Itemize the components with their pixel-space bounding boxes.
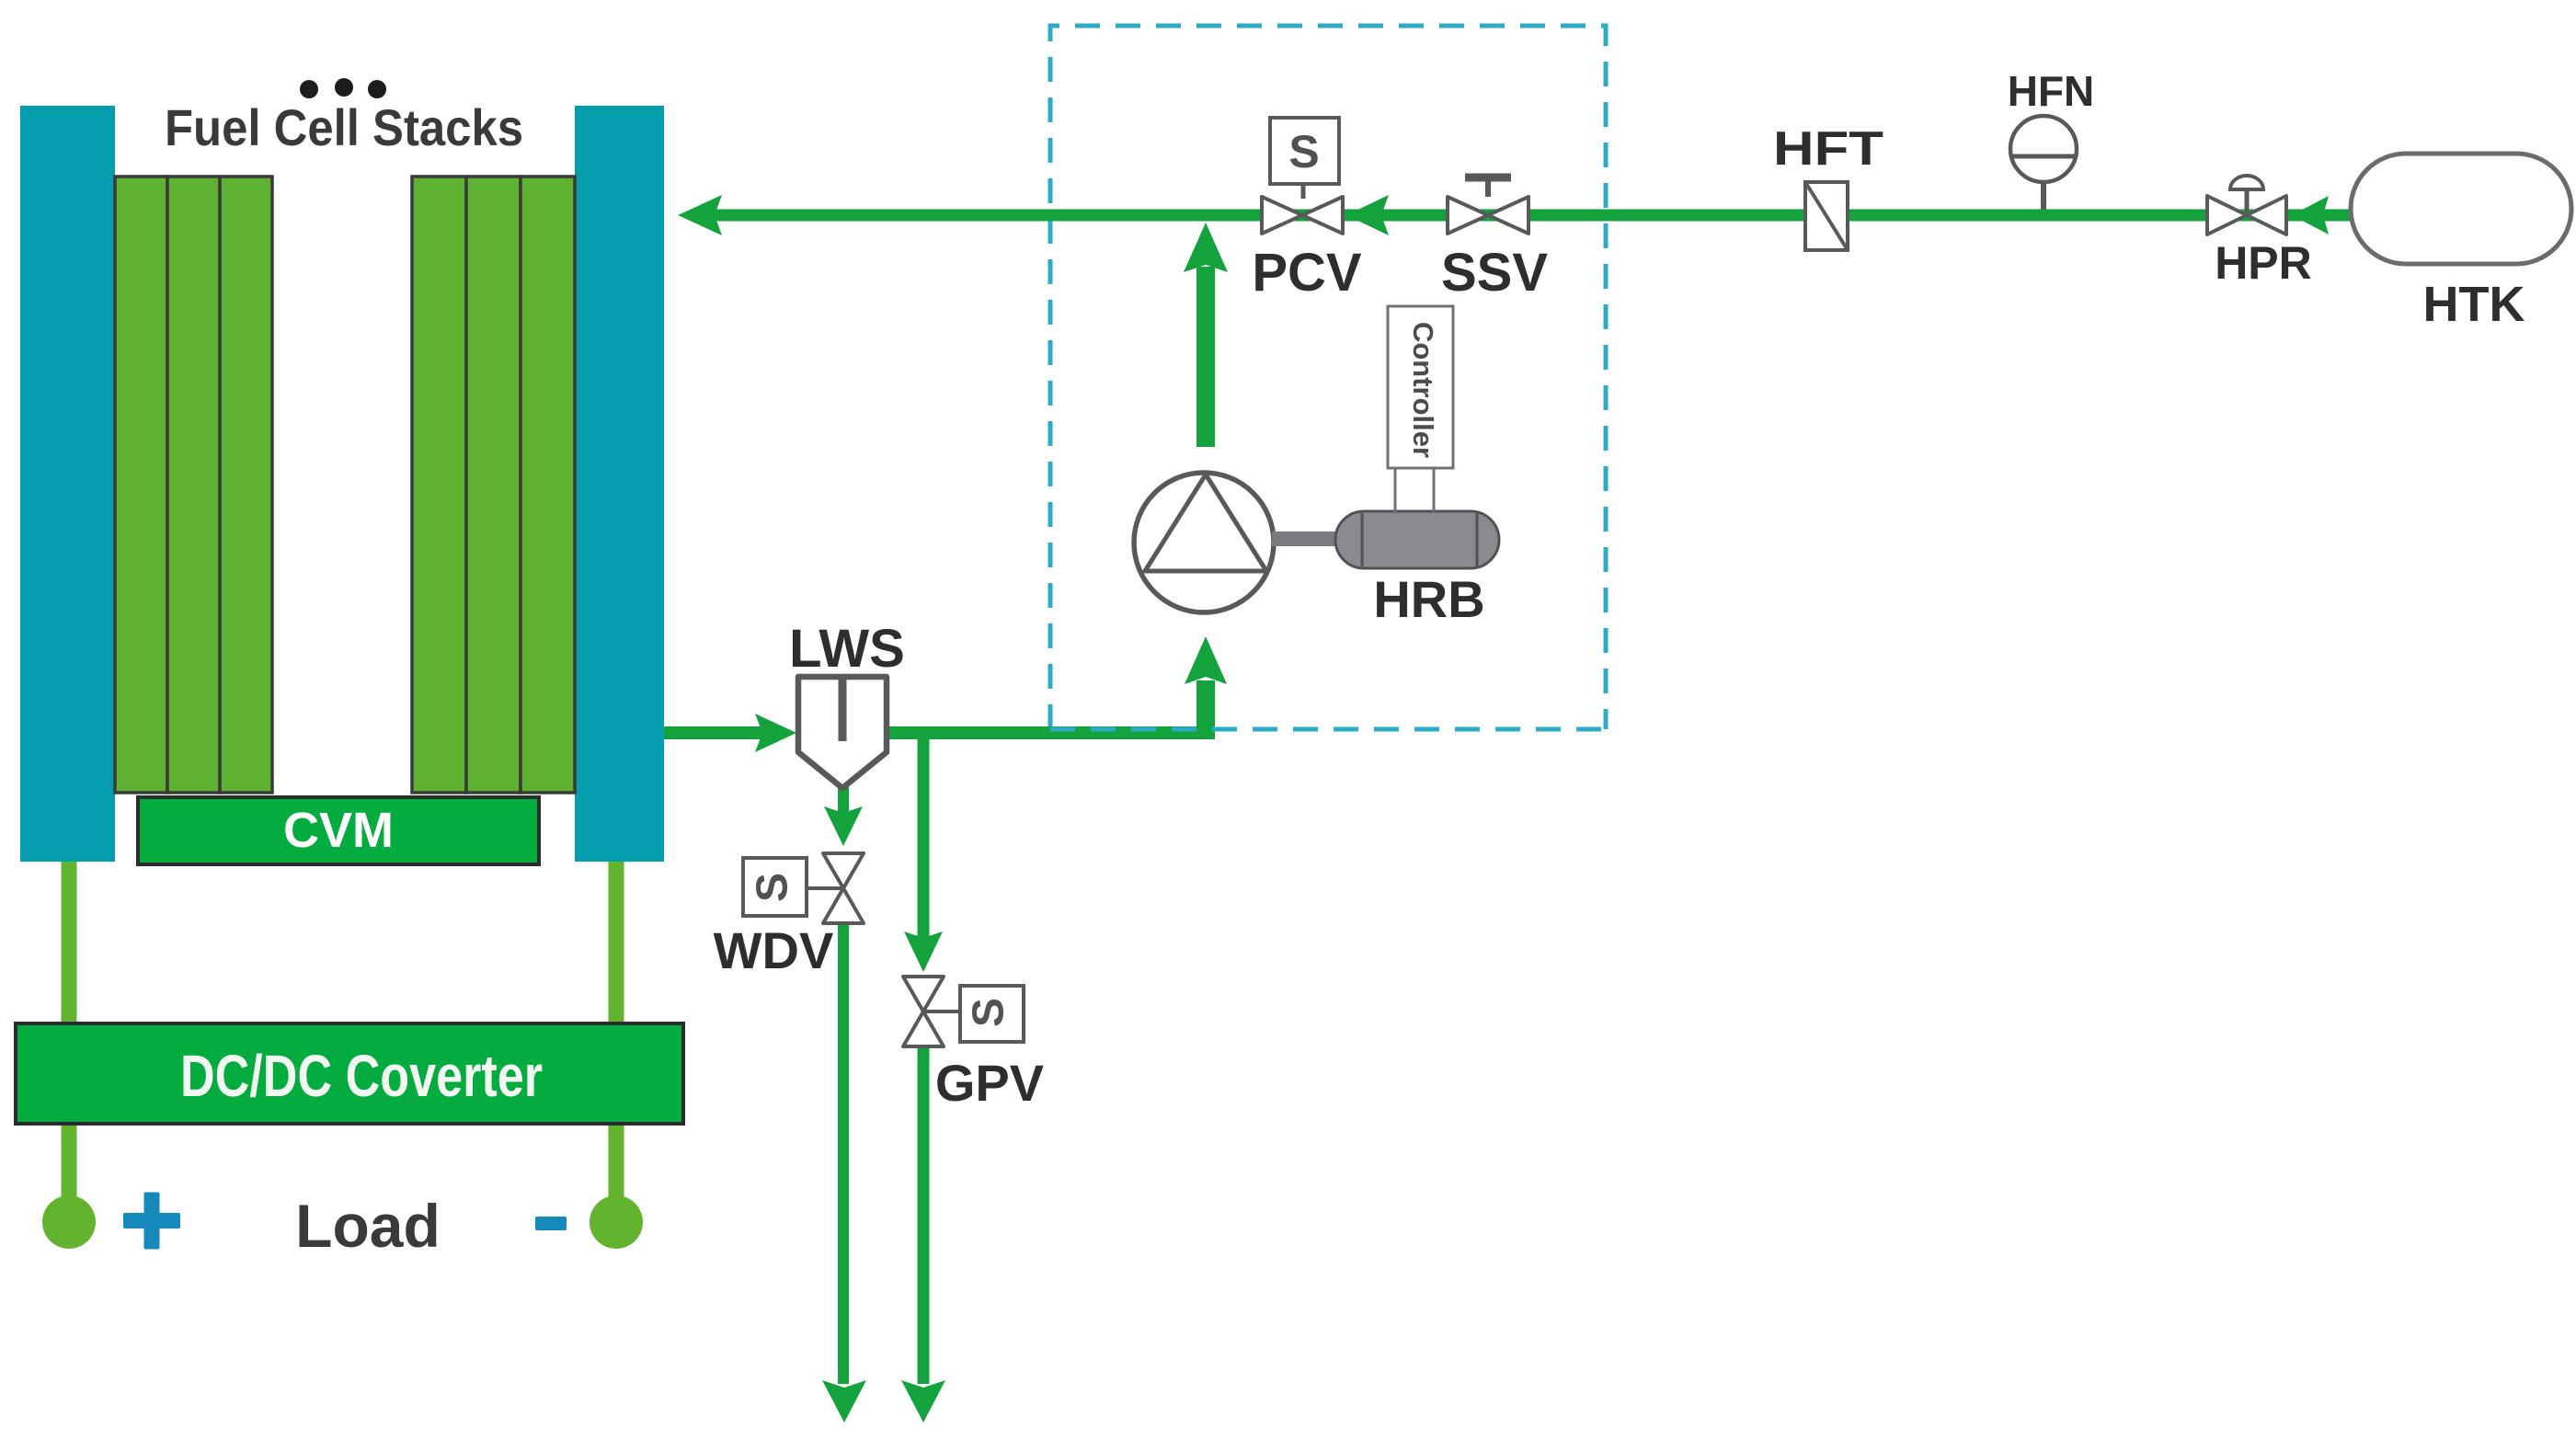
terminal wire: negative electrode bbox=[609, 856, 624, 1023]
terminal wire: positive electrode bbox=[62, 856, 77, 1023]
dashed box bottom edge (over recirculation pipe) bbox=[1050, 727, 1606, 732]
valve WDV bbox=[823, 853, 864, 923]
svg-text:HPR: HPR bbox=[2215, 237, 2312, 289]
valve SSV bbox=[1448, 197, 1528, 234]
minus terminal symbol bbox=[535, 1217, 567, 1230]
node: positive terminal bbox=[42, 1195, 96, 1249]
valve PCV solenoid box bbox=[1270, 118, 1339, 184]
separator LWS vessel bbox=[798, 677, 887, 788]
arrow into fuel cell stacks bbox=[678, 195, 722, 235]
fuel cell stack cells right group bbox=[412, 177, 575, 793]
tank HTK bbox=[2351, 154, 2571, 264]
wire: main hydrogen supply pipe bbox=[708, 210, 2351, 222]
wire: stack outlet into LWS bbox=[664, 726, 763, 739]
DC/DC converter box bbox=[16, 1023, 683, 1124]
svg-text:Fuel Cell Stacks: Fuel Cell Stacks bbox=[165, 98, 523, 156]
svg-text:HTK: HTK bbox=[2423, 277, 2525, 332]
valve WDV solenoid box bbox=[807, 886, 843, 890]
node: negative terminal bbox=[590, 1195, 643, 1249]
svg-text:GPV: GPV bbox=[935, 1054, 1044, 1112]
arrow above WDV bbox=[824, 806, 863, 846]
arrow bottom right purge outlet bbox=[901, 1380, 945, 1423]
wire: WDV outlet down bbox=[838, 920, 849, 1384]
wire: branch down to GPV bbox=[918, 726, 930, 938]
svg-text:HRB: HRB bbox=[1373, 570, 1484, 628]
valve SSV handle bbox=[1485, 180, 1491, 197]
arrow into pump from below bbox=[1185, 636, 1227, 684]
arrow pump outlet to main pipe bbox=[1184, 223, 1228, 272]
svg-text:Load: Load bbox=[295, 1192, 441, 1260]
svg-text:WDV: WDV bbox=[714, 921, 834, 979]
fuel cell stack end plate left bbox=[20, 106, 115, 862]
fuel cell stack cells left group bbox=[115, 177, 272, 793]
HRB controller neck bbox=[1394, 468, 1397, 512]
ellipsis dots above stacks bbox=[300, 80, 318, 98]
plus terminal symbol bbox=[123, 1213, 180, 1229]
gauge HFN bbox=[2010, 116, 2077, 182]
svg-text:CVM: CVM bbox=[283, 803, 394, 858]
arrow above GPV bbox=[904, 931, 943, 972]
svg-text:HFN: HFN bbox=[2008, 67, 2095, 115]
arrow after PCV bbox=[1346, 195, 1389, 235]
wire: GPV outlet down bbox=[918, 1045, 930, 1384]
svg-text:S: S bbox=[965, 998, 1013, 1027]
svg-text:Controller: Controller bbox=[1407, 322, 1439, 458]
wire: LWS outlet to recirculation riser bbox=[885, 726, 1212, 739]
svg-text:PCV: PCV bbox=[1252, 243, 1362, 303]
svg-text:S: S bbox=[1288, 126, 1319, 177]
arrow at HTK outlet bbox=[2292, 196, 2329, 234]
wire: LWS drain to WDV bbox=[838, 784, 849, 813]
dashed control-unit boundary box bbox=[1050, 26, 1606, 729]
blower HRB body bbox=[1335, 511, 1499, 568]
valve GPV solenoid box bbox=[923, 1010, 960, 1013]
valve PCV bbox=[1262, 197, 1343, 234]
svg-text:S: S bbox=[749, 873, 797, 902]
svg-text:DC/DC Coverter: DC/DC Coverter bbox=[180, 1043, 543, 1109]
arrow bottom left drain outlet bbox=[822, 1380, 866, 1423]
wire: pump inlet vertical pipe bbox=[1196, 680, 1215, 739]
wire: pump outlet vertical pipe bbox=[1196, 267, 1215, 447]
valve HPR dome handle bbox=[2230, 176, 2263, 189]
svg-text:SSV: SSV bbox=[1441, 243, 1548, 303]
LWS dip tube bbox=[839, 677, 847, 741]
fuel cell stack end plate right bbox=[575, 106, 664, 862]
svg-text:LWS: LWS bbox=[789, 619, 905, 679]
arrow into LWS bbox=[755, 714, 796, 752]
CVM cell voltage monitor box bbox=[138, 797, 539, 864]
HRB controller box bbox=[1388, 306, 1453, 468]
valve GPV bbox=[903, 977, 944, 1046]
svg-text:HFT: HFT bbox=[1773, 122, 1883, 176]
shaft pump to HRB bbox=[1272, 531, 1341, 546]
valve HPR bbox=[2207, 196, 2286, 234]
pump (recirculation) bbox=[1134, 473, 1274, 612]
filter HFT bbox=[1805, 182, 1848, 250]
